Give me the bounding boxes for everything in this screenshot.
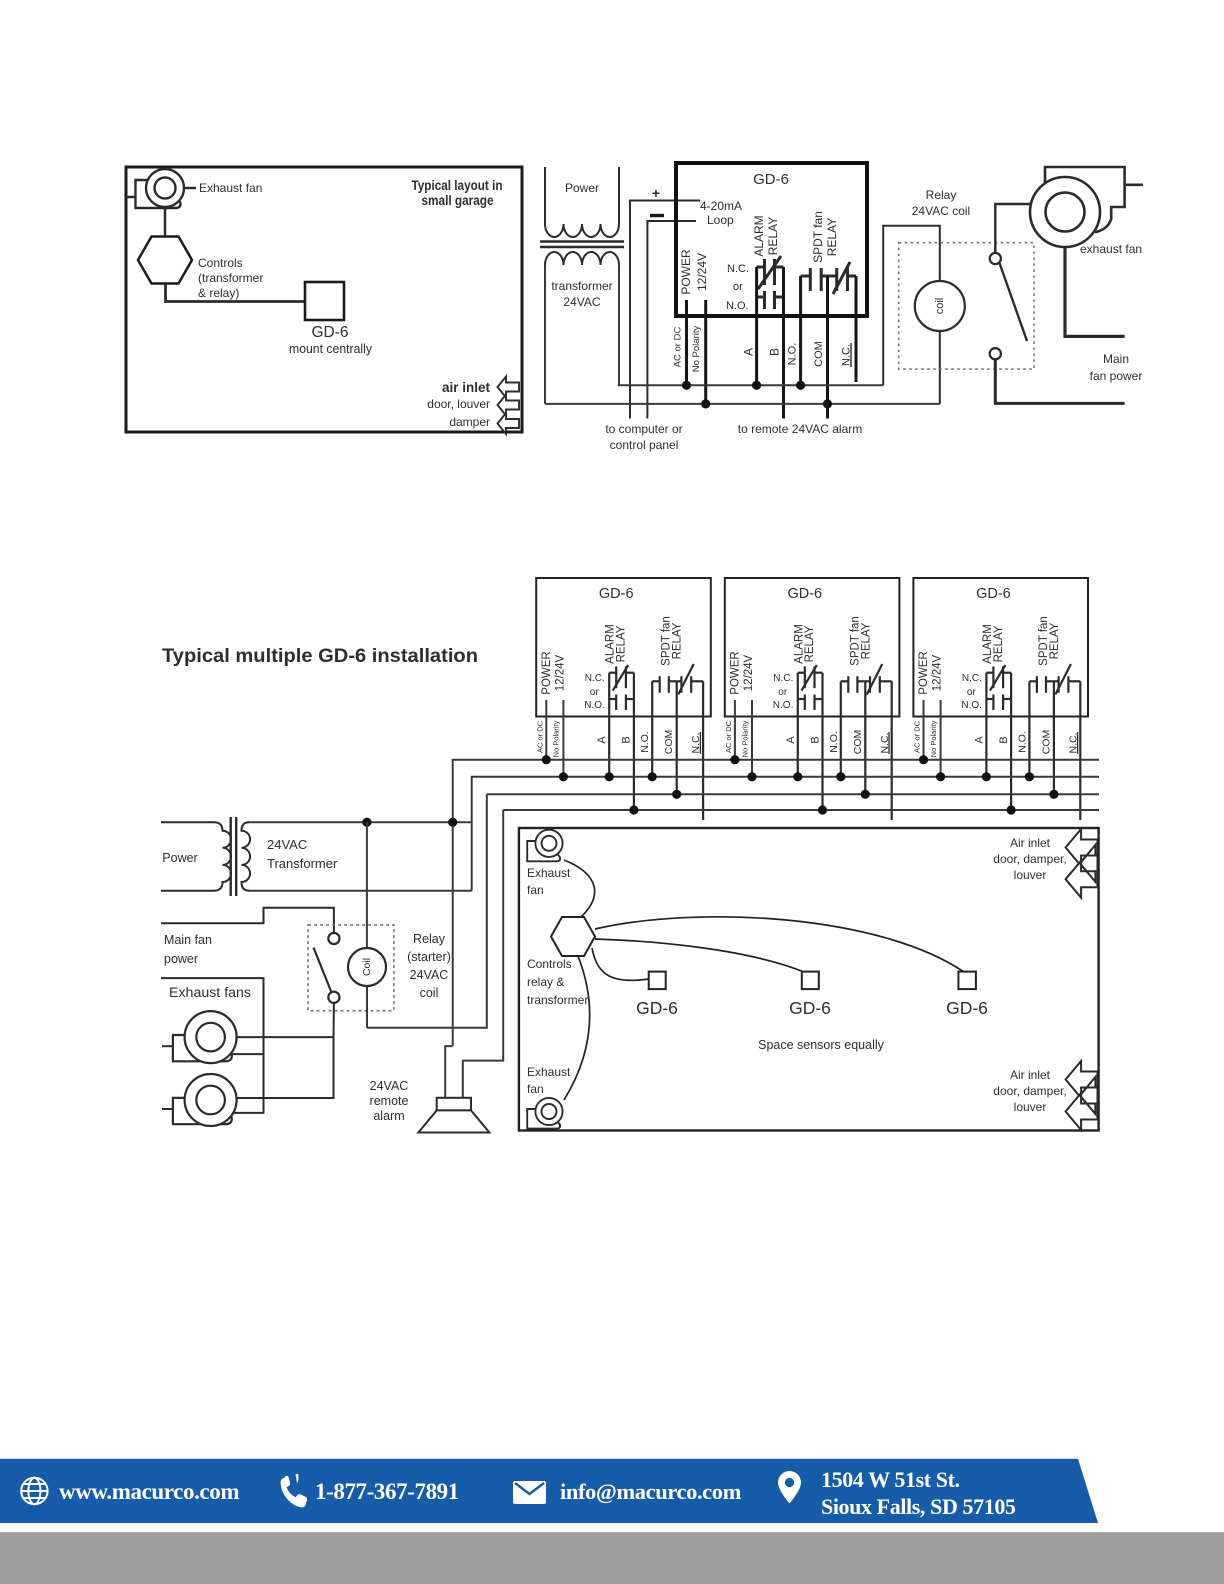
svg-text:or: or — [967, 687, 977, 698]
label: 24VAC Transformer — [267, 837, 338, 871]
alarm relay N.O. contact — [615, 695, 617, 711]
globe icon — [21, 1478, 47, 1504]
svg-text:AC or DC: AC or DC — [535, 720, 544, 753]
svg-text:24VAC coil: 24VAC coil — [912, 204, 970, 218]
bus 3 (COM) — [487, 793, 1099, 795]
svg-text:www.macurco.com: www.macurco.com — [59, 1479, 239, 1504]
svg-text:COM: COM — [813, 341, 825, 367]
SPDT N.O. contact — [847, 676, 849, 693]
GD-6 box at x=536.2 — [536, 578, 711, 717]
label: Air inlet door damper louver (bottom) — [993, 1068, 1066, 1114]
curve hexagon to GD-6 #1 — [592, 948, 649, 980]
relay dashed outline — [899, 243, 1034, 369]
svg-text:4-20mA: 4-20mA — [700, 199, 742, 213]
24VAC remote alarm speaker — [437, 1098, 471, 1111]
svg-text:Loop: Loop — [707, 213, 734, 227]
svg-text:fan: fan — [527, 883, 544, 897]
label: to computer or control panel — [605, 422, 682, 452]
phone icon — [281, 1476, 308, 1508]
svg-text:12/24V: 12/24V — [743, 654, 755, 691]
svg-text:Controls: Controls — [527, 957, 572, 971]
12/24V terminal wire — [940, 700, 942, 777]
svg-text:N.O.: N.O. — [828, 731, 840, 753]
svg-text:GD-6: GD-6 — [753, 171, 789, 188]
power feed wires to transformer — [161, 821, 214, 823]
svg-text:24VAC: 24VAC — [267, 837, 307, 852]
svg-text:Coil: Coil — [361, 958, 373, 976]
svg-text:POWER: POWER — [541, 651, 553, 694]
curve hexagon to GD-6 #2 — [595, 939, 804, 972]
svg-text:relay &: relay & — [527, 975, 564, 989]
svg-text:air inlet: air inlet — [442, 380, 491, 395]
svg-text:Air inlet: Air inlet — [1010, 836, 1051, 850]
footer gray bar — [0, 1532, 1224, 1584]
secondary winding bumps — [545, 252, 619, 265]
bus 4 (B) — [503, 809, 1099, 811]
svg-text:control panel: control panel — [610, 438, 679, 452]
starter coil wires — [366, 822, 368, 948]
svg-text:AC or DC: AC or DC — [673, 327, 684, 368]
SPDT N.O. contact — [659, 676, 661, 693]
svg-text:+: + — [652, 185, 660, 201]
N.O. terminal wire — [651, 681, 653, 777]
switch to fans vertical — [237, 1003, 334, 1098]
N.O. terminal wire — [1028, 681, 1030, 777]
label: Relay (starter) 24VAC coil — [407, 932, 451, 1000]
svg-text:small garage: small garage — [422, 193, 494, 208]
svg-text:RELAY: RELAY — [804, 625, 816, 662]
alarm relay N.C. contact — [992, 666, 994, 688]
svg-text:Exhaust fans: Exhaust fans — [169, 985, 251, 1000]
POWER terminal wire — [734, 700, 736, 760]
location pin icon — [778, 1471, 801, 1504]
N.O. terminal wire — [799, 276, 802, 385]
alarm relay N.C. contact — [763, 259, 766, 285]
svg-text:N.O.: N.O. — [726, 300, 749, 312]
label: N.C. or N.O. — [726, 263, 749, 312]
label: transformer 24VAC — [551, 279, 612, 309]
switch bottom wire to main fan power — [995, 359, 1124, 403]
GD-6 sensor box (small garage) — [305, 282, 344, 320]
N.C. underline — [1077, 732, 1079, 754]
garage outline (multiple install) — [519, 828, 1099, 1131]
title: Typical layout in small garage — [412, 178, 503, 208]
svg-text:or: or — [590, 687, 600, 698]
dots on secondary top wire — [362, 818, 371, 827]
exhaust fan (top diagram) — [1045, 167, 1125, 232]
alarm relay N.O. contact — [804, 695, 806, 711]
svg-text:coil: coil — [420, 986, 439, 1000]
svg-text:POWER: POWER — [918, 651, 930, 694]
svg-text:No Polarity: No Polarity — [691, 326, 702, 373]
GD-6 box (top diagram) — [676, 163, 867, 316]
svg-text:transformer: transformer — [551, 279, 612, 293]
GD-6 square 1 — [649, 972, 666, 990]
svg-text:transformer: transformer — [527, 993, 588, 1007]
fan1 stub — [162, 1045, 173, 1047]
relay coil feed wires — [883, 226, 940, 385]
svg-text:N.O.: N.O. — [1016, 731, 1028, 753]
SPDT N.C. contact — [680, 676, 682, 693]
svg-text:SPDT fan: SPDT fan — [811, 211, 825, 263]
GD-6 box at x=913.4 — [913, 578, 1088, 717]
COM terminal wire — [826, 276, 829, 419]
svg-text:GD-6: GD-6 — [636, 998, 678, 1018]
air inlet arrows (small garage) — [498, 377, 520, 398]
svg-text:N.O.: N.O. — [584, 700, 605, 711]
SPDT N.O. contact — [1036, 676, 1038, 693]
bus 1 (POWER) — [453, 760, 1099, 1046]
12/24V terminal wire — [751, 700, 753, 777]
svg-text:1-877-367-7891: 1-877-367-7891 — [315, 1479, 459, 1504]
controls hexagon — [138, 237, 192, 284]
alarm relay N.O. contact — [763, 291, 766, 309]
minus sign — [650, 214, 664, 217]
starter switch blade — [314, 948, 332, 993]
svg-text:Transformer: Transformer — [267, 856, 338, 871]
svg-text:GD-6: GD-6 — [787, 586, 822, 602]
svg-text:N.C.: N.C. — [773, 673, 793, 684]
curve hexagon to GD-6 #3 — [595, 917, 964, 972]
svg-text:24VAC: 24VAC — [563, 295, 600, 309]
label: air inlet door louver damper — [427, 380, 490, 429]
wire: wall to exhaust fan — [126, 196, 136, 199]
switch blade — [1000, 263, 1028, 341]
svg-text:B: B — [621, 736, 633, 743]
transformer secondary top wire — [247, 821, 472, 823]
relay coil circle — [915, 281, 965, 331]
N.C. underline — [699, 732, 701, 754]
alarm relay N.O. contact — [992, 695, 994, 711]
label: 4-20mA Loop — [700, 199, 742, 227]
footer blue banner — [0, 1459, 1098, 1523]
svg-text:Exhaust: Exhaust — [527, 866, 571, 880]
svg-text:No Polarity: No Polarity — [929, 720, 938, 757]
svg-text:B: B — [768, 348, 782, 356]
air inlet arrows top — [1080, 845, 1098, 882]
svg-text:door, damper,: door, damper, — [993, 1084, 1066, 1098]
controls hexagon (garage) — [551, 917, 595, 956]
wire: hexagon to GD-6 — [166, 284, 306, 302]
svg-text:or: or — [778, 687, 788, 698]
svg-text:12/24V: 12/24V — [554, 654, 566, 691]
exhaust fan 1 (lower-left) — [173, 1035, 232, 1061]
svg-text:fan power: fan power — [1090, 369, 1143, 383]
transformer secondary bottom wire — [247, 890, 472, 892]
svg-text:No Polarity: No Polarity — [740, 720, 749, 757]
starter switch top terminal — [328, 933, 339, 944]
24VAC transformer secondary winding — [242, 822, 251, 891]
label: 24VAC remote alarm — [370, 1079, 409, 1123]
COM terminal wire — [1053, 681, 1055, 794]
svg-text:to remote 24VAC alarm: to remote 24VAC alarm — [738, 422, 863, 436]
air inlet arrows bottom — [1080, 1077, 1098, 1114]
bus junction dots — [542, 755, 551, 764]
alarm relay N.C. contact — [615, 666, 617, 688]
svg-text:AC or DC: AC or DC — [913, 720, 922, 753]
svg-text:exhaust fan: exhaust fan — [1080, 242, 1142, 256]
svg-text:AC or DC: AC or DC — [724, 720, 733, 753]
curve hexagon to top fan — [564, 860, 595, 917]
svg-text:GD-6: GD-6 — [946, 998, 988, 1018]
svg-text:power: power — [164, 952, 198, 966]
exhaust fan top (garage) — [527, 841, 560, 861]
SPDT N.C. contact — [835, 268, 838, 291]
wire: fan to controls hexagon — [164, 206, 167, 236]
exhaust fans feed wire — [161, 978, 264, 1113]
svg-text:remote: remote — [370, 1094, 409, 1108]
GD-6 box at x=724.8 — [725, 578, 900, 717]
COM terminal wire — [864, 681, 866, 794]
svg-text:A: A — [596, 736, 608, 744]
label: Relay 24VAC coil — [912, 188, 970, 218]
svg-text:Exhaust: Exhaust — [527, 1065, 571, 1079]
svg-text:(transformer: (transformer — [198, 271, 263, 285]
alarm relay N.C. contact — [804, 666, 806, 688]
svg-text:24VAC: 24VAC — [410, 968, 449, 982]
svg-text:Main: Main — [1103, 352, 1129, 366]
exhaust fan bottom (garage) — [527, 1109, 560, 1129]
envelope icon — [513, 1481, 546, 1504]
svg-text:1504 W 51st St.: 1504 W 51st St. — [821, 1467, 960, 1492]
main fan power wire to switch — [161, 908, 334, 933]
svg-text:coil: coil — [934, 298, 946, 315]
relay (starter) dashed outline — [308, 925, 394, 1011]
B terminal wire — [821, 673, 823, 810]
svg-text:Sioux Falls, SD 57105: Sioux Falls, SD 57105 — [821, 1494, 1016, 1519]
label: Main fan power — [164, 933, 212, 966]
bus wire upper (transformer to relay) — [618, 384, 883, 386]
svg-text:A: A — [785, 736, 797, 744]
svg-text:RELAY: RELAY — [993, 625, 1005, 662]
N.C. terminal wire — [1079, 681, 1081, 820]
svg-text:B: B — [998, 736, 1010, 743]
svg-text:12/24V: 12/24V — [695, 253, 709, 291]
svg-text:24VAC: 24VAC — [370, 1079, 409, 1093]
SPDT N.C. contact — [869, 676, 871, 693]
svg-text:& relay): & relay) — [198, 286, 239, 300]
svg-text:Power: Power — [162, 851, 197, 865]
svg-text:N.O.: N.O. — [639, 731, 651, 753]
B terminal wire — [633, 673, 635, 810]
svg-text:or: or — [733, 281, 743, 293]
fan2 stub — [162, 1108, 173, 1110]
label: Controls (transformer & relay) — [198, 256, 263, 300]
svg-text:alarm: alarm — [373, 1109, 404, 1123]
COM terminal wire — [676, 681, 678, 794]
curve hexagon to bottom fan — [564, 956, 590, 1100]
svg-text:N.C.: N.C. — [962, 673, 982, 684]
B terminal wire — [782, 267, 785, 419]
fan1 wire to switch — [237, 1036, 334, 1038]
svg-text:door, louver: door, louver — [427, 397, 490, 411]
svg-text:N.O.: N.O. — [773, 700, 794, 711]
svg-text:POWER: POWER — [730, 651, 742, 694]
POWER terminal wire — [545, 700, 547, 760]
svg-text:COM: COM — [852, 730, 864, 755]
bus 2 (12/24V-A-NO) — [472, 777, 1099, 891]
svg-text:Typical multiple GD-6 installa: Typical multiple GD-6 installation — [162, 645, 478, 667]
junction dots top diagram — [682, 381, 691, 390]
svg-text:No Polarity: No Polarity — [552, 720, 561, 757]
svg-text:A: A — [742, 348, 756, 356]
starter switch bottom terminal — [328, 992, 339, 1003]
svg-text:louver: louver — [1014, 1100, 1047, 1114]
transformer core bars — [229, 817, 231, 896]
svg-text:N.C.: N.C. — [727, 263, 749, 275]
svg-text:A: A — [973, 736, 985, 744]
svg-text:Power: Power — [565, 181, 599, 195]
label: Controls relay & transformer — [527, 957, 588, 1007]
svg-text:Controls: Controls — [198, 256, 243, 270]
bus 1 jog to alarm speaker — [445, 1046, 453, 1098]
12/24V terminal wire — [562, 700, 564, 777]
svg-text:GD-6: GD-6 — [599, 586, 634, 602]
A terminal wire — [755, 267, 758, 385]
12/24V wire (No Polarity) — [704, 300, 707, 404]
switch wire to fan — [995, 204, 1031, 253]
svg-text:to computer or: to computer or — [605, 422, 682, 436]
switch top terminal — [990, 253, 1001, 264]
4-20mA loop wire + — [630, 201, 700, 419]
primary winding bumps — [545, 224, 619, 237]
svg-text:(starter): (starter) — [407, 950, 451, 964]
svg-text:RELAY: RELAY — [1049, 622, 1061, 659]
transformer core bars — [540, 240, 624, 243]
exhaust fan 2 (lower-left) — [173, 1098, 232, 1124]
svg-text:door, damper,: door, damper, — [993, 852, 1066, 866]
svg-text:N.C.: N.C. — [585, 673, 605, 684]
wire: fan to label — [184, 187, 196, 190]
svg-text:N.O.: N.O. — [961, 700, 982, 711]
svg-text:louver: louver — [1014, 868, 1047, 882]
svg-text:RELAY: RELAY — [860, 622, 872, 659]
svg-text:GD-6: GD-6 — [789, 998, 831, 1018]
N.O. terminal wire — [840, 681, 842, 777]
starter coil circle — [348, 948, 386, 986]
svg-text:12/24V: 12/24V — [932, 654, 944, 691]
label: Air inlet door damper louver (top) — [993, 836, 1066, 882]
svg-text:B: B — [809, 736, 821, 743]
svg-text:ALARM: ALARM — [752, 215, 766, 256]
svg-text:COM: COM — [663, 730, 675, 755]
garage outline (small garage) — [126, 167, 522, 432]
SPDT N.O. contact — [809, 268, 812, 291]
label: Exhaust fan (top) — [527, 866, 571, 897]
4-20mA loop wire - — [647, 221, 696, 419]
svg-text:RELAY: RELAY — [616, 625, 628, 662]
svg-text:GD-6: GD-6 — [976, 586, 1011, 602]
bus wire lower (transformer to coil) — [545, 403, 940, 405]
N.C. terminal wire — [855, 276, 858, 382]
N.C. underline — [888, 732, 890, 754]
N.C. terminal wire — [702, 681, 704, 820]
POWER wire (AC or DC) — [685, 300, 688, 385]
svg-text:RELAY: RELAY — [766, 217, 780, 255]
svg-text:N.O.: N.O. — [787, 343, 799, 366]
GD-6 square 2 — [802, 972, 819, 990]
label: Exhaust fan (bottom) — [527, 1065, 571, 1096]
svg-text:info@macurco.com: info@macurco.com — [560, 1479, 742, 1505]
A terminal wire — [797, 673, 799, 777]
svg-text:RELAY: RELAY — [672, 622, 684, 659]
svg-text:Relay: Relay — [926, 188, 957, 202]
svg-text:Exhaust fan: Exhaust fan — [199, 181, 262, 195]
fan wire stub right — [1125, 184, 1143, 187]
switch bottom terminal — [990, 348, 1001, 359]
exhaust fan (small garage) — [136, 180, 181, 208]
svg-text:POWER: POWER — [679, 249, 693, 295]
svg-text:damper: damper — [449, 415, 490, 429]
24VAC transformer primary winding — [214, 822, 231, 891]
POWER terminal wire — [923, 700, 925, 760]
svg-text:Typical layout in: Typical layout in — [412, 178, 503, 193]
fan1 branch to feed — [230, 1053, 264, 1055]
N.C. terminal wire — [891, 681, 893, 820]
svg-text:GD-6: GD-6 — [311, 324, 348, 341]
svg-text:RELAY: RELAY — [825, 218, 839, 256]
svg-text:Main fan: Main fan — [164, 933, 212, 947]
A terminal wire — [608, 673, 610, 777]
fan power wire — [1065, 247, 1125, 336]
SPDT N.C. contact — [1057, 676, 1059, 693]
B terminal wire — [1010, 673, 1012, 810]
svg-text:COM: COM — [1040, 730, 1052, 755]
A terminal wire — [985, 673, 987, 777]
secondary leads down — [544, 265, 546, 404]
svg-text:Space sensors equally: Space sensors equally — [758, 1038, 885, 1052]
svg-text:Relay: Relay — [413, 932, 446, 946]
label: Main fan power — [1090, 352, 1143, 383]
label: GD-6 mount centrally — [289, 324, 373, 356]
svg-text:mount centrally: mount centrally — [289, 342, 373, 356]
N.C. underline — [850, 343, 852, 367]
svg-text:Air inlet: Air inlet — [1010, 1068, 1051, 1082]
svg-text:fan: fan — [527, 1082, 544, 1096]
GD-6 square 3 — [958, 972, 976, 990]
transformer 24VAC (top diagram) primary leads — [544, 167, 546, 224]
